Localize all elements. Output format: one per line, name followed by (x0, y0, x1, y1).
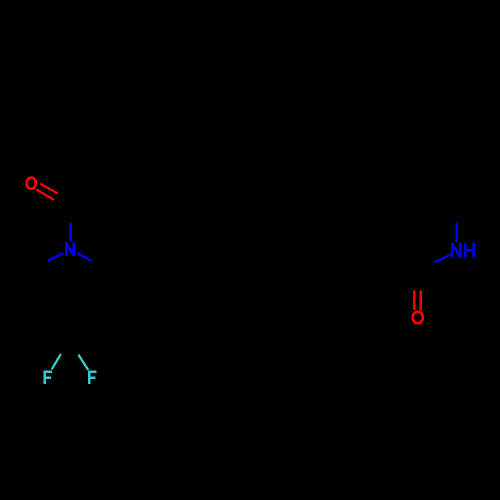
bond CH3-N2 (methyl to amide NH, blue half) (455, 223, 457, 242)
atom N1 (piperidine nitrogen letter) (66, 242, 74, 256)
bond C=O double bond (amide, red halves) (414, 291, 420, 311)
atom O2 (amide carbonyl oxygen letter) (413, 312, 423, 324)
bond C4-F2 (cyan half) (78, 355, 88, 370)
bond C-N1 (carbonyl carbon to piperidine N, blue half) (70, 223, 72, 241)
bond C=O double bond (acetyl, red halves) (37, 184, 58, 200)
atom O1 (acetyl carbonyl oxygen letter) (27, 178, 36, 189)
atom F2 (right fluorine letter) (88, 371, 96, 384)
bond N1-C6 ring bond down-right (blue half) (77, 253, 92, 261)
bond C4-F1 (cyan half) (52, 354, 61, 369)
atom N2 (amide nitrogen letter N of NH) (452, 243, 460, 258)
bond N1-C2 ring bond down-left (blue half) (48, 253, 64, 261)
atom H (amide hydrogen letter H of NH) (465, 243, 474, 258)
atom F1 (left fluorine letter) (43, 371, 51, 384)
bond N2-C (amide N to carbonyl carbon, blue half) (435, 254, 453, 263)
